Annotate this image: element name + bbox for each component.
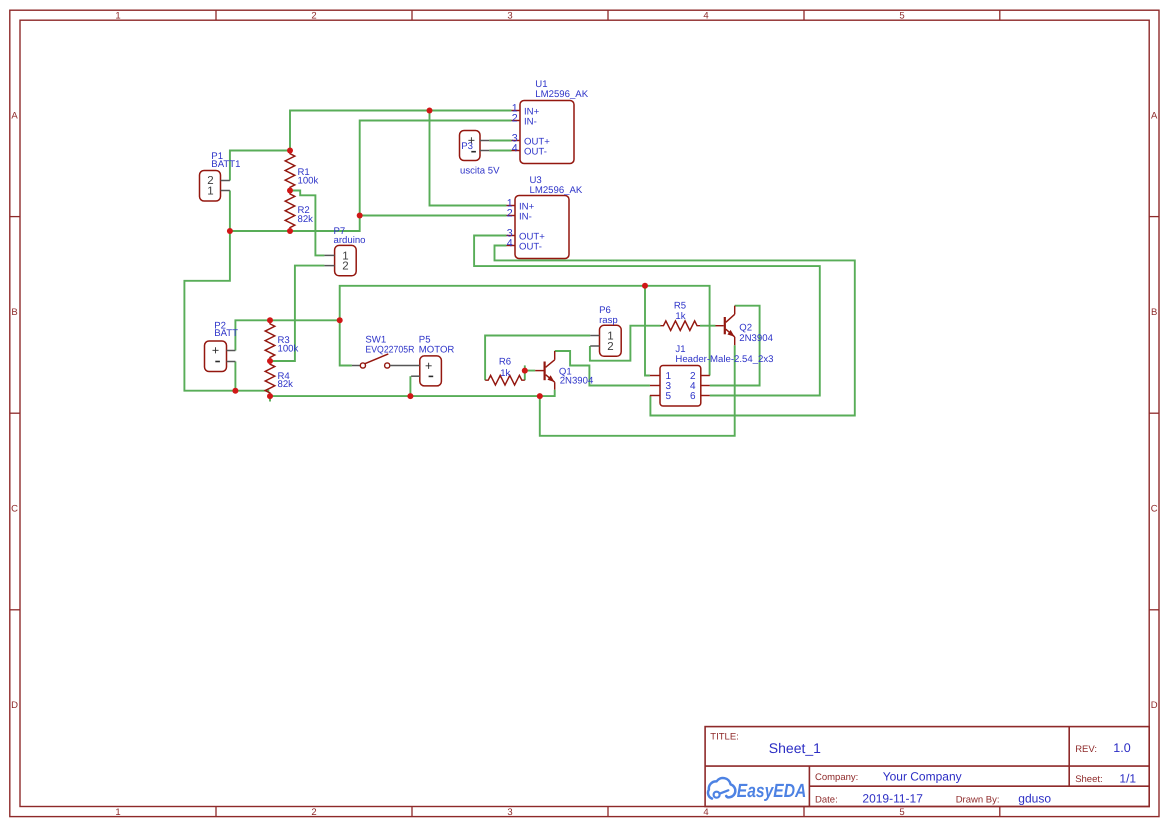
svg-text:+: + xyxy=(468,133,475,147)
resistor R4 xyxy=(265,361,275,396)
svg-text:EVQ22705R: EVQ22705R xyxy=(365,344,414,355)
svg-text:IN-: IN- xyxy=(519,211,532,222)
wire emitter rail y396 xyxy=(270,390,555,396)
junction node (290,190.5) xyxy=(287,188,293,194)
wire R1 top to U1 IN+ xyxy=(290,111,512,151)
svg-text:6: 6 xyxy=(690,391,696,402)
svg-text:82k: 82k xyxy=(298,214,314,225)
svg-text:1: 1 xyxy=(207,186,213,198)
connector P3 uscita 5V xyxy=(460,131,481,161)
svg-text:2019-11-17: 2019-11-17 xyxy=(862,792,923,806)
svg-text:100k: 100k xyxy=(298,175,319,186)
svg-text:4: 4 xyxy=(703,11,708,22)
resistor R2 xyxy=(285,191,295,232)
svg-text:arduino: arduino xyxy=(334,235,366,246)
wire U3 OUT+ to J1 pin6 xyxy=(474,236,820,396)
IC U3 LM2596_AK xyxy=(515,196,569,259)
svg-text:gduso: gduso xyxy=(1018,792,1051,806)
svg-text:2: 2 xyxy=(311,807,316,818)
svg-text:2: 2 xyxy=(311,11,316,22)
svg-text:3: 3 xyxy=(507,807,512,818)
svg-text:1k: 1k xyxy=(500,368,510,379)
wire P3 plus to U1 OUT+ xyxy=(489,140,511,142)
svg-text:1: 1 xyxy=(115,807,120,818)
resistor R6 xyxy=(485,375,525,385)
wire node down to SW1 xyxy=(340,320,352,365)
wire Q2 collector to J1 pin4 xyxy=(710,306,760,386)
connector P1 BATT1 xyxy=(200,171,221,202)
junction node (645,285.8) xyxy=(642,283,648,289)
junction node (290,150.5) xyxy=(287,148,293,154)
junction node (429.5,110.5) xyxy=(427,108,433,114)
wire P6 pin2 to R5 xyxy=(590,326,661,361)
svg-text:BATT: BATT xyxy=(214,328,238,339)
svg-text:+: + xyxy=(425,359,432,373)
connector P7 arduino xyxy=(335,245,357,275)
svg-text:EasyEDA: EasyEDA xyxy=(737,781,807,802)
svg-text:BATT1: BATT1 xyxy=(211,159,240,170)
svg-text:1.0: 1.0 xyxy=(1113,741,1130,755)
wire R5 to Q2 base xyxy=(700,325,716,327)
wire P5 minus drop xyxy=(409,376,411,396)
svg-text:3: 3 xyxy=(507,11,512,22)
title block xyxy=(705,727,1149,807)
svg-text:1: 1 xyxy=(115,11,120,22)
IC U1 LM2596_AK xyxy=(520,101,574,164)
wire node231 to U1 IN- xyxy=(230,121,512,232)
junction node (339.7,320.3) xyxy=(337,317,343,323)
resistor R5 xyxy=(661,321,701,331)
svg-text:5: 5 xyxy=(899,11,904,22)
connector P2 BATT xyxy=(205,341,227,372)
wire R1R2 tap to P7 pin1 xyxy=(290,191,324,256)
svg-text:R5: R5 xyxy=(674,301,686,312)
switch SW1 EVQ22705R xyxy=(352,365,360,367)
svg-text:5: 5 xyxy=(666,391,672,402)
svg-text:A: A xyxy=(11,111,18,122)
svg-text:2N3904: 2N3904 xyxy=(560,375,594,386)
svg-text:B: B xyxy=(11,307,17,318)
junction node (359.7,215.5) xyxy=(357,213,363,219)
wire branch to U3 IN- xyxy=(360,215,507,217)
wire stub above Q1 base node xyxy=(524,365,526,370)
svg-text:IN-: IN- xyxy=(524,116,537,127)
wire P2 plus to node xyxy=(235,320,339,350)
svg-text:Company:: Company: xyxy=(815,772,858,783)
wire P2 minus xyxy=(234,362,236,391)
svg-text:A: A xyxy=(1151,111,1158,122)
svg-text:4: 4 xyxy=(507,237,513,249)
svg-text:LM2596_AK: LM2596_AK xyxy=(535,89,588,100)
connector P6 rasp xyxy=(600,325,622,356)
transistor Q2 2N3904 xyxy=(724,317,726,334)
svg-text:Drawn By:: Drawn By: xyxy=(956,794,1000,805)
resistor R1 xyxy=(285,151,295,191)
svg-text:uscita 5V: uscita 5V xyxy=(460,165,500,176)
junction node (410.4,396.1) xyxy=(407,393,413,399)
EasyEDA logo xyxy=(708,778,735,799)
wire P6 pin1 to R6 xyxy=(485,336,590,381)
svg-text:TITLE:: TITLE: xyxy=(710,732,739,743)
svg-text:1k: 1k xyxy=(675,311,685,322)
wire divider tap to P7 pin2 xyxy=(270,266,324,361)
svg-text:R6: R6 xyxy=(499,357,511,368)
wire P1 pin2 to R1 top xyxy=(230,151,290,181)
svg-text:82k: 82k xyxy=(278,379,294,390)
junction node (539.8,396.1) xyxy=(537,393,543,399)
svg-text:OUT-: OUT- xyxy=(524,146,547,157)
wire branch to U3 IN+ xyxy=(430,111,507,206)
svg-text:+: + xyxy=(212,344,219,358)
transistor Q1 2N3904 xyxy=(543,362,545,381)
svg-text:100k: 100k xyxy=(278,344,299,355)
junction node (270,320.3) xyxy=(267,317,273,323)
svg-text:D: D xyxy=(11,700,18,711)
svg-text:Sheet:: Sheet: xyxy=(1075,774,1102,785)
svg-text:C: C xyxy=(11,503,18,514)
junction node (290,231) xyxy=(287,228,293,234)
svg-text:LM2596_AK: LM2596_AK xyxy=(530,185,583,196)
connector P5 MOTOR xyxy=(420,356,442,386)
svg-text:REV:: REV: xyxy=(1075,744,1097,755)
svg-text:2: 2 xyxy=(512,112,518,124)
wire R6 to Q1 base xyxy=(525,371,535,381)
junction node (270,396.1) xyxy=(267,393,273,399)
wire P1 pin1 down xyxy=(229,191,231,232)
svg-text:2: 2 xyxy=(507,207,513,219)
resistor R3 xyxy=(265,320,275,361)
svg-text:Sheet_1: Sheet_1 xyxy=(769,740,821,756)
junction node (229.9,231) xyxy=(227,228,233,234)
wire branch to J1 pin1 xyxy=(645,286,650,376)
svg-text:C: C xyxy=(1151,503,1158,514)
svg-text:D: D xyxy=(1151,700,1158,711)
svg-text:2: 2 xyxy=(342,261,348,273)
svg-text:rasp: rasp xyxy=(599,315,618,326)
wire node up to J1 pin2 xyxy=(340,286,710,376)
wire R4 bottom tail xyxy=(269,396,271,401)
svg-text:2: 2 xyxy=(607,341,613,353)
svg-text:Your Company: Your Company xyxy=(883,769,962,783)
junction node (235.4,390.7) xyxy=(232,388,238,394)
junction node (524.8,370.6) xyxy=(522,368,528,374)
svg-text:Date:: Date: xyxy=(815,794,838,805)
wire Q1 collector to J1 pin3 xyxy=(555,351,650,386)
header J1 Header-Male-2.54_2x3 xyxy=(660,366,701,407)
svg-text:MOTOR: MOTOR xyxy=(419,344,455,355)
svg-text:5: 5 xyxy=(899,807,904,818)
wire Q2 emitter return xyxy=(540,345,735,436)
svg-text:4: 4 xyxy=(512,142,518,154)
svg-text:1/1: 1/1 xyxy=(1119,771,1136,785)
svg-text:B: B xyxy=(1151,307,1157,318)
wire P3 minus to U1 OUT- xyxy=(489,150,511,152)
svg-text:2N3904: 2N3904 xyxy=(739,333,773,344)
wire ground left rail xyxy=(184,231,269,391)
svg-text:OUT-: OUT- xyxy=(519,241,542,252)
junction node (270,361) xyxy=(267,358,273,364)
svg-text:4: 4 xyxy=(703,807,708,818)
wire U3 OUT- to J1 pin5 xyxy=(495,246,855,416)
svg-text:Header-Male-2.54_2x3: Header-Male-2.54_2x3 xyxy=(675,354,773,365)
svg-text:Q2: Q2 xyxy=(739,323,752,334)
